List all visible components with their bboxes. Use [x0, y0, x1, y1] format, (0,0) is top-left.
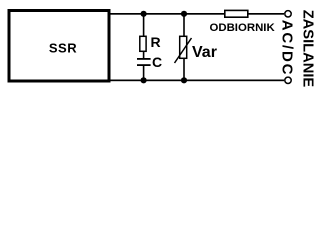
node junction bottom of varistor branch — [181, 77, 187, 83]
resistor R — [140, 36, 146, 51]
svg-text:SSR: SSR — [49, 41, 77, 56]
svg-text:ZASILANIE: ZASILANIE — [300, 10, 316, 88]
svg-text:R: R — [151, 34, 161, 50]
terminal bottom (open circle) — [285, 77, 291, 83]
varistor Var body — [180, 36, 187, 58]
SSR relay box U1 — [9, 11, 109, 82]
node junction bottom of RC branch — [141, 77, 147, 83]
node junction top of varistor branch — [181, 11, 187, 17]
wire R to C — [143, 51, 145, 59]
load resistor ODBIORNIK — [225, 10, 248, 17]
svg-text:Var: Var — [192, 44, 217, 61]
wire varistor to bottom bus — [183, 58, 185, 80]
varistor Var diagonal stroke — [175, 38, 192, 63]
node junction top of RC branch — [141, 11, 147, 17]
svg-text:ODBIORNIK: ODBIORNIK — [210, 22, 276, 34]
wire top bus — [111, 13, 285, 15]
wire RC branch upper — [143, 14, 145, 37]
capacitor C — [137, 58, 151, 66]
svg-text:AC/DC: AC/DC — [278, 20, 295, 77]
svg-text:C: C — [152, 54, 162, 70]
wire C to bottom bus — [143, 66, 145, 80]
wire bottom bus — [111, 80, 285, 82]
wire varistor branch upper — [183, 14, 185, 37]
terminal top (open circle) — [285, 11, 291, 17]
